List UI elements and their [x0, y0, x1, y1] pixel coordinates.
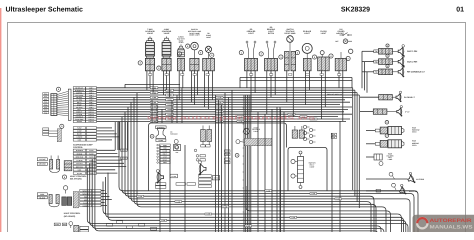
switch S3 reading light	[87, 93, 474, 235]
svg-text:VALVE: VALVE	[147, 32, 154, 35]
relay K2	[37, 91, 474, 235]
svg-text:RH CONSOLE LT: RH CONSOLE LT	[407, 71, 425, 74]
connector PWR window feed	[366, 121, 420, 135]
svg-text:HVAC CONTROL: HVAC CONTROL	[70, 175, 87, 178]
node 12 marker	[279, 55, 283, 59]
connector J6	[265, 41, 278, 71]
wire code labels lower bus	[137, 114, 474, 232]
svg-text:STUD: STUD	[179, 41, 184, 44]
connector HVAC pins	[37, 93, 474, 235]
wire links below top row	[37, 78, 474, 235]
fuse block FB1	[37, 93, 474, 235]
node 11 marker	[259, 52, 263, 56]
wire corners lower-left	[87, 93, 474, 235]
svg-text:CLMB: CLMB	[138, 196, 142, 198]
svg-text:LIGHT: LIGHT	[248, 32, 254, 35]
switch S2 on-off	[37, 32, 474, 235]
wire enclosure interior lamp module	[87, 93, 474, 235]
node 6 marker	[186, 44, 190, 48]
lamp 4in light	[37, 93, 474, 235]
svg-text:CLMB: CLMB	[152, 102, 156, 104]
svg-text:Ultrasleeper Schematic: Ultrasleeper Schematic	[6, 6, 84, 14]
node 15 marker	[329, 54, 333, 58]
svg-text:CLMB: CLMB	[291, 217, 295, 219]
svg-text:www.autorepairmanuals.ws: www.autorepairmanuals.ws	[145, 114, 315, 121]
svg-text:CLMB: CLMB	[217, 107, 221, 109]
node 7 marker	[177, 52, 181, 56]
connector pin label column	[37, 71, 474, 235]
labels cable 2	[37, 93, 474, 235]
watermark logo bottom right	[413, 215, 474, 232]
svg-text:P1-4: P1-4	[44, 102, 47, 104]
speaker SP1 AUX 1 RH	[362, 44, 418, 57]
fuse block FB2	[49, 93, 474, 235]
lamp L3 floor light	[37, 28, 474, 235]
connector pigtails center	[87, 93, 474, 235]
sensor assembly bottom left	[54, 93, 474, 235]
wire drops from top components	[37, 71, 474, 235]
watermark red edge line	[0, 8, 1, 232]
labels battery feed	[37, 93, 474, 235]
svg-text:TRWD: TRWD	[167, 100, 171, 102]
wire fan from J11	[37, 71, 474, 235]
svg-text:RH READ LT: RH READ LT	[404, 96, 416, 99]
connector J11 ladder	[37, 71, 474, 235]
solenoid valve SV1	[145, 37, 154, 71]
svg-text:CLMB: CLMB	[217, 102, 221, 104]
lamp L5 dome telltale	[37, 91, 474, 235]
svg-text:FEED: FEED	[412, 131, 417, 134]
svg-text:CONTROL: CONTROL	[73, 146, 84, 149]
node 8 marker	[199, 51, 203, 55]
svg-text:AUX 1 RH: AUX 1 RH	[407, 50, 418, 53]
node 9 marker	[210, 53, 214, 57]
wire harness bus upper	[37, 71, 474, 235]
svg-text:LIGHT: LIGHT	[321, 32, 327, 35]
svg-text:CLMB: CLMB	[217, 112, 221, 114]
svg-text:CLMB: CLMB	[266, 191, 270, 193]
svg-text:CLMB: CLMB	[336, 199, 340, 201]
connector stubs bottom center	[87, 93, 474, 235]
solenoid valve SV2	[162, 37, 171, 71]
svg-text:01: 01	[456, 7, 464, 14]
svg-text:AUTOREPAIR: AUTOREPAIR	[430, 218, 472, 224]
svg-text:(W/ APADS): (W/ APADS)	[70, 178, 82, 181]
svg-text:CLMB: CLMB	[206, 214, 210, 216]
wire speaker feeds	[37, 51, 474, 235]
connector J12 ladder	[37, 93, 474, 235]
svg-text:CLMB: CLMB	[311, 193, 315, 195]
svg-text:P1-3: P1-3	[44, 99, 47, 101]
speaker RH driver	[87, 93, 474, 235]
svg-text:CLMB: CLMB	[152, 92, 156, 94]
svg-text:CLMB: CLMB	[246, 226, 250, 228]
connector ladder J13	[54, 93, 474, 235]
svg-text:CLMB: CLMB	[176, 201, 180, 203]
node 17 marker	[56, 87, 60, 91]
svg-text:P1-8: P1-8	[44, 112, 47, 114]
connector P12 pin labels	[37, 93, 474, 235]
wire code labels left trunk	[87, 93, 474, 235]
connector J5	[245, 41, 258, 71]
wire code labels upper bus	[37, 71, 474, 235]
svg-text:DOME LIGHT: DOME LIGHT	[189, 34, 201, 37]
transformer FMR	[54, 93, 474, 235]
svg-text:CLMB: CLMB	[152, 107, 156, 109]
wire verticals lower bus	[137, 107, 474, 232]
connector suspension pins	[37, 93, 474, 235]
svg-text:SK28329: SK28329	[341, 7, 370, 14]
svg-text:CLMB: CLMB	[152, 88, 156, 90]
wire harness bus lower	[87, 93, 474, 235]
svg-text:HVAC CONTROL: HVAC CONTROL	[64, 212, 81, 215]
lamp L2 base light	[37, 28, 474, 235]
svg-text:P1-6: P1-6	[44, 107, 47, 109]
node 16 marker	[346, 56, 350, 60]
wire trunk left vertical	[37, 88, 474, 235]
svg-text:EXTRA: EXTRA	[268, 32, 275, 35]
wire verticals center	[37, 90, 474, 235]
node 4 marker	[138, 61, 142, 65]
node 19 marker	[60, 124, 64, 128]
wire trunk right vertical	[37, 88, 474, 235]
node 5 marker	[157, 66, 161, 70]
connector radio pins	[54, 93, 474, 235]
svg-text:MANUALS.WS: MANUALS.WS	[430, 224, 474, 230]
node 10 marker	[239, 51, 243, 55]
svg-text:CLMB: CLMB	[161, 220, 165, 222]
node 18 marker	[62, 175, 66, 179]
svg-text:LH CONS: LH CONS	[416, 178, 425, 181]
wire drops into interior module	[37, 74, 474, 235]
svg-text:DOOR JAMB: DOOR JAMB	[285, 32, 297, 35]
svg-text:VALVE: VALVE	[164, 32, 171, 35]
wire loop reading-light circuit	[288, 148, 327, 191]
terminal strip T1	[37, 93, 474, 235]
svg-text:P1-2: P1-2	[44, 96, 47, 98]
svg-text:CLMB: CLMB	[152, 97, 156, 99]
wire corners lower-right	[137, 107, 474, 235]
relay K1	[37, 91, 474, 235]
node 13 marker	[295, 51, 299, 55]
volume control VR1	[87, 93, 474, 235]
svg-text:P1-1: P1-1	[44, 93, 47, 95]
connector radio head pins	[87, 93, 474, 235]
svg-text:TRWD: TRWD	[167, 104, 171, 106]
lamp RH reading light	[37, 91, 474, 235]
speaker SP3 RH CONSOLE	[362, 64, 425, 77]
svg-text:AUX 2 RH: AUX 2 RH	[407, 60, 418, 63]
power point P1	[37, 32, 474, 235]
svg-text:(W/ APADS): (W/ APADS)	[64, 215, 76, 218]
gauge G1	[63, 186, 67, 190]
indicator lamp L4	[37, 39, 474, 235]
solenoid valve SV3	[177, 44, 184, 70]
svg-text:FEED: FEED	[412, 144, 417, 147]
diode cluster D1-D6	[37, 91, 474, 235]
svg-text:LIGHT: LIGHT	[304, 32, 310, 35]
wire labels on component drops	[37, 74, 474, 235]
svg-text:OFF: OFF	[335, 40, 338, 43]
node 14 marker	[312, 55, 316, 59]
connector P11 pin labels	[37, 71, 474, 235]
fuse holder F1	[37, 93, 474, 235]
wire code labels center	[87, 93, 474, 235]
speaker SP2 AUX 2 RH	[362, 54, 418, 67]
speaker LH driver	[87, 93, 474, 235]
svg-text:CLMB: CLMB	[152, 112, 156, 114]
svg-text:TRWD: TRWD	[167, 109, 171, 111]
speaker AUX 1 LH	[37, 93, 474, 235]
svg-text:CLMB: CLMB	[223, 207, 227, 209]
switch S1 telltale	[37, 28, 474, 235]
speaker LH console	[37, 93, 474, 235]
lamp assembly interior dome	[87, 93, 474, 235]
connector PWR mirror feed	[366, 134, 420, 148]
svg-text:CLMB: CLMB	[217, 97, 221, 99]
wire trunk center vertical	[37, 88, 474, 235]
svg-text:P1-7: P1-7	[44, 110, 47, 112]
